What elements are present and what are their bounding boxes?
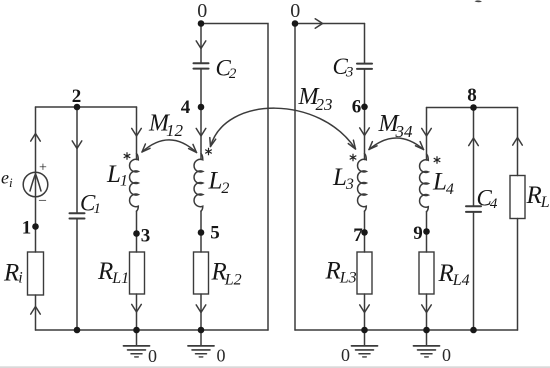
node 5 junction dot [198, 229, 205, 236]
node 1 junction dot [32, 223, 39, 230]
wire C1 branch upper [76, 107, 78, 213]
wire R_L3 to bottom rail [364, 294, 366, 330]
svg-text:0: 0 [341, 345, 350, 365]
capacitor C4 plates [466, 206, 481, 212]
inductor L3 coil [358, 154, 367, 212]
wire node8 rail down to L4 [426, 108, 428, 161]
resistor R_L2 body [194, 252, 209, 294]
capacitor C2 plates [194, 63, 209, 68]
wire L1 to R_L1 [136, 211, 138, 252]
node 6 junction dot [361, 104, 368, 111]
current arrow up on R_L branch [513, 138, 523, 146]
svg-text:RL1: RL1 [97, 258, 129, 287]
svg-text:L4: L4 [432, 169, 454, 199]
svg-text:RL3: RL3 [325, 258, 357, 287]
svg-text:L3: L3 [332, 164, 354, 193]
wire source to R_i [35, 197, 37, 252]
wire L3 to R_L3 [364, 211, 366, 252]
junction dot L1 ground [133, 327, 140, 334]
junction dot L3 ground [361, 327, 368, 334]
scan line bottom edge [0, 367, 550, 368]
node 8 junction dot [470, 104, 477, 111]
wire C4 lower [473, 212, 475, 330]
svg-text:M12: M12 [148, 111, 184, 141]
polarity mark asterisk L3 [350, 154, 357, 162]
svg-text:M34: M34 [378, 111, 414, 141]
node 9 junction dot [423, 228, 430, 235]
current arrow down above ground L4 [422, 305, 432, 313]
svg-text:0: 0 [217, 346, 226, 366]
capacitor C1 plates [70, 213, 85, 218]
wire R_L4 to bottom rail [426, 294, 428, 330]
svg-text:0: 0 [148, 346, 157, 366]
svg-text:C1: C1 [80, 191, 101, 218]
svg-text:L2: L2 [208, 168, 230, 198]
node 0 top left junction dot [198, 20, 205, 27]
svg-text:5: 5 [210, 223, 220, 244]
polarity mark asterisk L1 [124, 152, 131, 160]
current arrow down on C1 branch [72, 141, 82, 149]
svg-text:1: 1 [22, 218, 32, 239]
wire C4 branch upper [473, 108, 475, 207]
wire L4 to R_L4 [426, 212, 428, 253]
junction dot C4 bottom [470, 327, 477, 334]
wire top rail of left block and right side down [201, 24, 268, 331]
junction dot C1 bottom [74, 327, 81, 334]
node 4 junction dot [198, 104, 205, 111]
node 0 top right junction dot [292, 20, 299, 27]
svg-text:M23: M23 [298, 84, 333, 114]
svg-text:2: 2 [72, 86, 82, 107]
mutual coupling arc M12 [142, 140, 197, 153]
wire R_L2 to bottom rail [200, 294, 202, 330]
svg-text:C3: C3 [333, 54, 354, 81]
current arrow down above ground L2 [196, 305, 206, 313]
ground symbol under R_L3 [352, 330, 378, 357]
wire node6 to L3 [364, 107, 366, 160]
junction dot L2 ground [198, 327, 205, 334]
svg-text:+: + [39, 161, 47, 176]
current arrow down above ground L1 [132, 304, 142, 312]
wire L2 to R_L2 [200, 211, 202, 252]
svg-text:–: – [38, 193, 47, 208]
svg-text:0: 0 [290, 0, 300, 22]
svg-text:7: 7 [353, 225, 363, 246]
mutual coupling arc M34 [369, 138, 424, 150]
wire node4 to L2 [200, 107, 202, 160]
ground symbol under R_L1 [124, 330, 150, 357]
polarity mark asterisk L4 [434, 156, 441, 164]
scan smudge top right [475, 0, 483, 2]
inductor L1 coil [130, 154, 139, 212]
svg-text:C4: C4 [477, 186, 498, 213]
current arrow down into L3 [360, 128, 370, 136]
wire C1 lower [76, 219, 78, 331]
wire bottom rail of right block [295, 329, 518, 331]
wire node8 rail [427, 107, 518, 109]
node 2 rail wire [36, 106, 137, 108]
wire left branch from node2 rail down to source [35, 107, 37, 172]
wire L1 branch upper [136, 107, 138, 160]
capacitor C3 plates [357, 64, 372, 69]
source e_i [23, 172, 48, 197]
svg-text:0: 0 [442, 345, 451, 365]
wire R_L lower [517, 219, 519, 331]
svg-text:Ri: Ri [3, 260, 23, 287]
polarity mark asterisk L2 [205, 148, 212, 156]
wire R_L1 to bottom rail [136, 294, 138, 330]
wire R_i to bottom rail [35, 295, 37, 330]
svg-text:0: 0 [197, 0, 207, 22]
current arrow down into L2 [196, 128, 206, 136]
ground symbol under R_L2 [188, 330, 214, 357]
current arrow right on top rail [315, 19, 322, 28]
svg-text:3: 3 [141, 226, 151, 247]
wire C2 branch top from node 0 [200, 24, 202, 64]
svg-text:RL4: RL4 [438, 260, 470, 289]
svg-text:C2: C2 [216, 56, 237, 83]
svg-text:6: 6 [352, 97, 362, 118]
wire C3 branch top [364, 24, 366, 64]
mutual coupling arc M23 [210, 108, 356, 149]
resistor R_L3 body [357, 252, 372, 294]
node 7 junction dot [361, 229, 368, 236]
current arrow up above bottom rail [31, 307, 41, 315]
svg-text:L1: L1 [106, 161, 128, 190]
ground symbol under R_L4 [414, 330, 440, 357]
resistor R_L4 body [419, 252, 434, 294]
node 3 junction dot [133, 230, 140, 237]
current arrow down into L4 [422, 128, 432, 136]
svg-text:ei: ei [1, 168, 13, 191]
resistor R_i body [28, 252, 44, 295]
inductor L2 coil [194, 154, 203, 212]
inductor L4 coil [420, 154, 429, 212]
node 2 junction dot [74, 104, 81, 111]
wire C3 to node 6 [364, 69, 366, 107]
svg-text:9: 9 [413, 223, 423, 244]
current arrow down below node 0 [196, 41, 206, 49]
svg-text:8: 8 [467, 85, 477, 106]
svg-text:RL: RL [526, 182, 550, 211]
resistor R_L1 body [130, 252, 145, 294]
wire bottom rail of left block [36, 329, 269, 331]
current arrow up on left branch [31, 134, 41, 142]
wire R_L branch upper [517, 108, 519, 176]
svg-text:4: 4 [181, 97, 191, 118]
wire C2 to node 4 [200, 69, 202, 107]
wire top rail of right block [295, 23, 365, 25]
svg-text:RL2: RL2 [211, 259, 242, 289]
current arrow up on C4 branch [469, 138, 479, 146]
resistor R_L body [510, 176, 525, 219]
current arrow down above ground L3 [360, 305, 370, 313]
current arrow down into L1 [132, 128, 142, 136]
wire left side of right block [294, 24, 296, 331]
junction dot L4 ground [423, 327, 430, 334]
